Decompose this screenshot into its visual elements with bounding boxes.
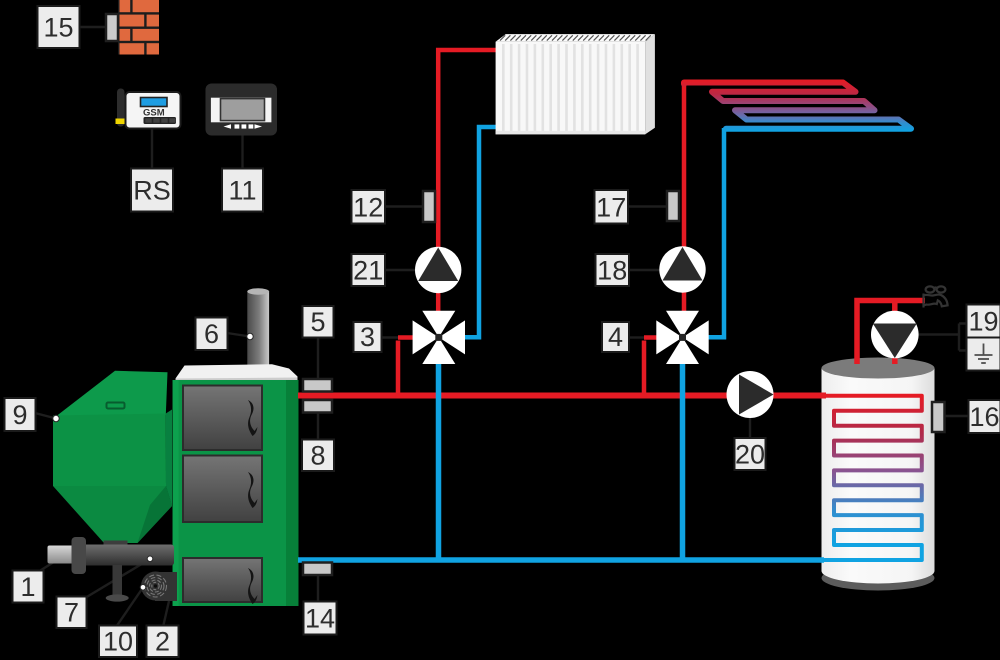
wire gsm-RS [151,128,153,169]
wire controller-11 [241,134,243,169]
sensor for label 15 [106,14,118,41]
svg-text:14: 14 [305,604,335,634]
svg-text:20: 20 [735,440,765,470]
pipe red main supply [298,393,826,399]
wire label15-sensor [79,26,107,28]
hopper lid handle [107,403,125,409]
wire label5-sensor [317,336,319,380]
svg-text:18: 18 [597,256,627,286]
label 2 [147,626,179,658]
auger feeder neck [104,541,128,551]
svg-text:RS: RS [133,176,171,206]
svg-text:6: 6 [204,319,219,349]
room controller 11 [206,84,278,136]
floor heating serpentine coil [684,83,911,129]
wire label12-sensor [384,205,424,207]
boiler door top [183,386,262,451]
pipe blue valve3 to return [436,362,442,562]
svg-text:5: 5 [310,307,325,337]
wire label9-hopper [35,413,56,419]
node dot hopper [53,415,59,421]
pipe blue floor return to valve4 [708,128,724,337]
label 6 [196,318,228,351]
faucet [924,286,948,307]
wire label10-fan [116,588,143,628]
svg-text:11: 11 [228,176,256,206]
pump 18 [659,246,705,292]
svg-text:3: 3 [360,322,375,352]
node dot chimney [247,333,253,339]
boiler door middle [183,456,262,523]
wire label21-pump [384,269,418,271]
svg-text:12: 12 [353,193,383,223]
fuel hopper funnel [53,486,172,543]
label 21 [352,254,386,286]
fuel hopper side shading [166,410,172,507]
label 1 [13,571,44,603]
node dot auger [147,556,153,562]
mixing valve 4 [656,311,708,364]
pipe red stub valve3 [398,340,400,342]
boiler body side shading [286,380,298,606]
wire label14-sensor [317,574,319,602]
pipe red riser to radiator [398,50,497,398]
sensor 17 [667,191,679,221]
fan housing [155,572,177,601]
label 4 [602,322,629,352]
sensor 12 [423,191,435,222]
pump 20 [727,371,774,418]
pipe red riser floor circuit [644,83,684,399]
brick chimney wall [118,0,159,55]
label 11 [222,169,263,212]
svg-text:2: 2 [155,627,170,657]
label 9 [5,398,36,431]
svg-text:GSM: GSM [143,108,165,119]
svg-text:17: 17 [596,193,626,223]
label 5 [303,306,334,338]
svg-text:16: 16 [969,402,999,432]
auger collar [72,537,87,574]
svg-text:1: 1 [20,572,35,602]
radiator [496,34,655,134]
hot water tank body [822,368,935,584]
tank heat-exchanger coil [821,396,922,560]
svg-text:21: 21 [353,256,383,286]
GSM module [116,89,181,129]
svg-text:10: 10 [103,627,133,657]
label 7 [57,597,87,629]
fan [141,572,170,601]
svg-text:7: 7 [64,598,79,628]
label 3 [354,322,382,352]
pipe blue from radiator to valve3 [464,127,497,337]
wire pump19-label bracket [918,324,967,351]
pipe blue valve4 to return [680,362,686,562]
boiler support leg [113,565,123,596]
wire label18-pump [628,269,662,271]
label 16 [969,400,1000,433]
label 14 [304,602,337,635]
svg-text:9: 9 [12,400,27,430]
boiler chimney [247,288,269,367]
wire label3-valve [381,336,398,338]
label 8 [302,440,334,472]
fuel hopper body [53,414,166,487]
label 17 [595,190,629,224]
mixing valve 3 [413,311,465,364]
svg-text:15: 15 [43,13,73,43]
label RS [131,169,173,212]
sensor 5 [303,379,332,392]
pump 21 [415,247,461,293]
label 15 [38,6,80,48]
auger feeder tube [83,545,174,566]
DHW circulation pump 19 [871,311,919,359]
svg-text:8: 8 [310,441,325,471]
wire pump20-label [749,416,751,439]
label 20 [735,438,766,470]
label 18 [596,254,630,286]
pipe red DHW outlet to faucet [857,301,925,365]
wire label7-auger [85,559,150,598]
wire label17-sensor [627,205,668,207]
label 12 [352,190,386,224]
label 19 with ground symbol [967,305,1000,371]
wire label6-chimney [227,333,250,337]
sensor 14 [303,563,332,576]
sensor 8 [303,400,332,413]
svg-text:4: 4 [608,322,623,352]
svg-text:19: 19 [968,307,998,337]
wire label4-valve [628,336,644,338]
hot water tank top cap [822,358,935,379]
boiler door bottom [183,558,262,604]
wire label1-motor [38,560,57,572]
wire sensor16-label [945,415,969,417]
label 10 [99,626,137,658]
sensor 16 [932,402,945,432]
node dot fan [140,585,146,591]
hot water tank bottom cap [822,566,935,591]
wire label2-fan [163,601,169,627]
boiler top slab [176,364,298,381]
auger motor [48,546,75,564]
pipe blue main return [298,557,824,563]
boiler body [173,380,299,606]
wire label8-sensor [317,411,319,441]
fuel hopper lid [55,371,168,419]
